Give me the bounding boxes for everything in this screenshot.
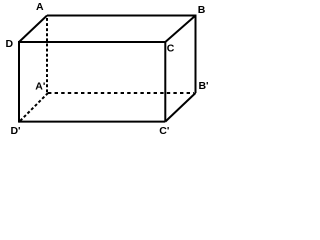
svg-text:C: C <box>167 42 175 54</box>
svg-text:A': A' <box>35 80 45 92</box>
svg-text:A: A <box>36 1 44 13</box>
svg-text:B': B' <box>198 80 208 92</box>
svg-text:C': C' <box>159 125 169 137</box>
svg-text:D': D' <box>10 125 20 137</box>
svg-text:B: B <box>198 4 206 16</box>
svg-text:D: D <box>6 38 14 50</box>
